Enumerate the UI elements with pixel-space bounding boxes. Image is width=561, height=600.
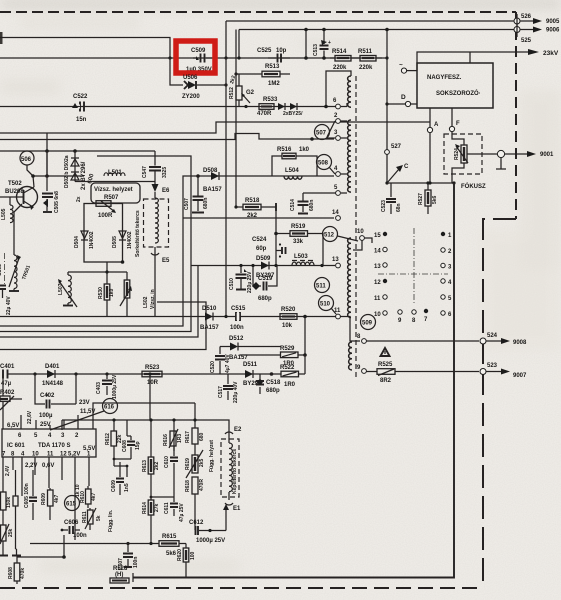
wire y183 [387,182,455,184]
transistor T502 BU208 [0,181,38,210]
svg-text:9005: 9005 [546,19,560,25]
svg-text:220µ 25V: 220µ 25V [247,271,253,293]
svg-text:100µ: 100µ [39,413,53,419]
svg-text:525: 525 [521,38,532,44]
svg-text:60p: 60p [256,246,267,252]
transformer core dashed [355,76,357,378]
diode D512 BA157 [220,336,281,361]
svg-text:10R: 10R [147,380,159,386]
capacitor C608 [122,436,141,459]
svg-text:2k2: 2k2 [247,213,258,219]
svg-text:5,2V: 5,2V [68,452,80,458]
pin 5 [336,191,341,196]
R522 inline row1 [270,355,305,388]
pin 527 [385,150,390,155]
svg-text:R615: R615 [162,534,177,540]
svg-text:E2: E2 [234,427,242,433]
connector grid bottom pins 9 8 7 [398,309,428,324]
resistor 150k [1,490,13,525]
svg-text:D510: D510 [202,306,217,312]
svg-text:14: 14 [332,210,339,216]
svg-text:22µ 40V: 22µ 40V [6,296,12,315]
pin 4 [336,172,341,177]
trimmer R619 2k5 [185,450,205,478]
svg-text:1R3: 1R3 [177,434,183,443]
capacitor C507 [183,174,334,218]
dashed border frame [0,11,516,13]
wire bus P1 [0,122,430,133]
svg-text:ZY200: ZY200 [182,94,200,100]
svg-text:11: 11 [374,296,381,302]
svg-text:4k7: 4k7 [54,494,60,503]
wire bus W5 [0,302,206,350]
svg-text:C605 100n: C605 100n [24,483,30,508]
capacitor C547 [142,151,168,192]
svg-text:D511: D511 [243,362,258,368]
resistor R618 [185,477,205,530]
capacitor C515 [230,306,246,331]
svg-text:10: 10 [357,229,364,235]
svg-text:D508: D508 [203,168,218,174]
svg-text:L503: L503 [294,254,308,260]
trimmer R512 G2 [229,74,255,107]
pin F [451,108,453,126]
resistor R609 4k7 [41,488,60,520]
svg-text:NAGYFESZ.: NAGYFESZ. [427,75,462,81]
svg-text:BA157: BA157 [229,355,248,361]
resistor R519 33k [290,224,308,245]
deflection coil box E6 E5 [144,188,171,316]
svg-text:1M2: 1M2 [268,81,280,87]
svg-text:15p: 15p [135,441,141,450]
wire bus P2 [0,134,334,140]
svg-text:524: 524 [487,333,498,339]
svg-text:D509: D509 [256,256,271,262]
wire long vertical x236 [235,30,237,208]
trimmer pot right of R530 [120,272,132,316]
capacitor C609 1n5 [111,462,130,495]
svg-text:Vízsz. helyzet: Vízsz. helyzet [94,187,133,193]
svg-text:C525: C525 [257,48,272,54]
svg-text:9006: 9006 [546,28,560,34]
svg-text:C611: C611 [164,502,170,514]
diode U506 ZY200 [170,58,226,100]
svg-text:SOKSZOROZÓ·: SOKSZOROZÓ· [436,89,481,97]
resistor R612 22k [105,431,123,459]
wire bus W2 [0,218,183,326]
svg-text:Függ. lin.: Függ. lin. [108,509,114,532]
svg-text:9001: 9001 [540,152,554,158]
capacitor C505 6n8 [42,176,60,213]
svg-text:510: 510 [320,302,331,308]
circle 508 [317,155,332,170]
pin 10 wire [364,238,372,243]
svg-text:15: 15 [374,233,381,239]
transformer winding bottom [349,342,352,370]
circle 507 [315,125,330,140]
svg-text:C522: C522 [73,94,88,100]
svg-text:9008: 9008 [513,340,527,346]
pin 3 [336,136,341,141]
pin ~ [401,68,406,73]
svg-text:9007: 9007 [513,373,527,379]
svg-text:C524: C524 [252,237,267,243]
svg-text:R613: R613 [142,460,148,472]
resistor R616 [163,429,183,448]
svg-text:12: 12 [374,280,381,286]
capacitor C403 [96,374,118,399]
capacitor C606 [61,520,87,539]
resistor R514 [330,49,356,71]
circle 510 [319,296,334,311]
pin 10 step [360,236,365,241]
svg-text:D: D [401,94,406,101]
svg-text:2x: 2x [76,196,82,202]
diode D510 BA157 [200,306,219,331]
svg-text:R611: R611 [82,511,88,523]
svg-text:12: 12 [60,452,67,458]
diode D511 BY298 [243,362,262,387]
svg-text:10: 10 [32,452,39,458]
svg-text:E6: E6 [162,188,170,194]
svg-text:150k: 150k [6,497,12,508]
capacitor C518 680p [256,374,281,394]
svg-text:11: 11 [47,452,54,458]
IC601 TDA1170S box [2,429,96,458]
resistor R513 [236,64,290,87]
capacitor C519 680p loop [251,264,277,302]
circle 511 [315,278,330,293]
svg-text:8R2: 8R2 [380,378,392,384]
svg-text:100n: 100n [230,325,244,331]
wire y188 to box [75,181,155,183]
warning triangle [381,348,390,356]
capacitor C523 [381,183,402,214]
wire row1 y374 [8,373,281,375]
svg-text:R619: R619 [185,458,191,470]
svg-text:C403: C403 [96,382,102,394]
transformer winding lower [348,238,351,317]
svg-text:523: 523 [487,363,498,369]
svg-text:D512: D512 [229,336,244,342]
svg-text:1k0: 1k0 [299,147,310,153]
wire verticals from corners [226,21,239,58]
coil L507 block [58,272,127,307]
circle 512 [323,227,338,242]
wire bus W3 [0,156,191,332]
capacitor C517 [218,374,239,403]
svg-text:1k0: 1k0 [109,288,115,297]
pin 8 [362,339,367,344]
svg-text:R512: R512 [229,87,235,99]
resistor R518 [234,198,276,219]
diode D503 [278,103,285,110]
svg-text:C401: C401 [0,364,15,370]
wire line y151 [0,150,155,152]
pin 14 [336,216,341,221]
wire main line y58 [0,57,387,59]
diode D401 1N4148 [42,364,64,387]
resistor R520 [280,307,297,329]
pin 9 [362,369,367,374]
resistor R527 [418,183,438,214]
svg-text:R520: R520 [281,307,296,313]
svg-text:23kV: 23kV [543,50,559,57]
capacitor C607 [118,542,139,570]
wire bus W4 [0,266,198,338]
svg-text:C606: C606 [64,520,79,526]
svg-text:5k6: 5k6 [432,195,438,204]
svg-text:2,4V: 2,4V [5,465,11,476]
diodes D502 column [64,151,96,190]
svg-text:R513: R513 [265,64,280,70]
svg-text:23V: 23V [79,400,90,406]
R529 on y355 line [240,315,307,367]
svg-text:R616: R616 [163,434,169,446]
resistor R615 5k6 [30,534,186,557]
svg-text:C518: C518 [266,380,281,386]
svg-text:~: ~ [399,62,403,69]
svg-text:FÓKUSZ: FÓKUSZ [461,182,486,190]
terminal 9001 [497,150,504,157]
svg-text:C: C [404,164,409,170]
wire line y37 [0,38,170,59]
svg-text:C505 6n8: C505 6n8 [54,191,60,213]
svg-text:G2: G2 [246,90,255,96]
svg-text:2k2: 2k2 [154,461,160,470]
svg-text:Vízsz. in: Vízsz. in [150,289,156,309]
svg-text:R618: R618 [185,480,191,492]
trimmer 25k [0,524,14,544]
svg-text:R402: R402 [0,390,15,396]
svg-text:L504: L504 [285,168,299,174]
svg-text:C513: C513 [313,44,319,56]
capacitor C605 [24,470,37,520]
arrow C [387,169,399,183]
svg-text:680: 680 [199,432,205,441]
svg-text:TDA 1170 S: TDA 1170 S [38,443,70,449]
svg-text:C503: C503 [0,264,3,276]
svg-text:615: 615 [66,502,77,508]
trimmer R611 [82,508,102,530]
svg-text:IC 601: IC 601 [7,443,25,449]
pin D [387,103,405,105]
resistor R620 100 [177,544,196,578]
wire D510 line y316 [0,317,360,342]
svg-text:L502: L502 [143,296,149,308]
svg-text:R612: R612 [105,433,111,445]
svg-text:33k: 33k [293,239,304,245]
svg-text:10k: 10k [282,323,293,329]
svg-text:C547: C547 [142,166,148,178]
svg-text:470k: 470k [20,568,26,579]
svg-text:D502 b D502a: D502 b D502a [64,155,70,188]
svg-text:2x BY296/: 2x BY296/ [81,161,87,190]
svg-text:25k: 25k [8,528,14,537]
svg-text:C612: C612 [189,520,204,526]
svg-text:100n: 100n [133,557,139,568]
resistor R402 [0,374,22,410]
wire 23kV [417,52,530,71]
resistor R511 [356,49,382,71]
svg-text:10: 10 [374,312,381,318]
svg-text:220k: 220k [359,65,373,71]
svg-text:T502: T502 [8,181,22,187]
circle 509 [361,315,376,330]
svg-text:512: 512 [324,233,335,239]
svg-text:C519: C519 [258,276,273,282]
svg-text:527: 527 [391,144,402,150]
svg-text:C507: C507 [184,198,190,210]
column end bars [0,555,21,557]
svg-text:R620: R620 [177,549,183,561]
svg-text:220k: 220k [333,65,347,71]
node A [168,56,171,59]
coil L505 [1,197,13,223]
wire E2 link [149,374,151,420]
svg-text:R514: R514 [332,49,347,55]
R528 (H) [110,566,129,583]
scan artifact left edge [0,32,3,44]
svg-text:C515: C515 [231,306,246,312]
svg-text:R617: R617 [185,431,191,443]
svg-text:R516: R516 [277,147,292,153]
bottom dashed border partial row [0,587,483,589]
svg-text:508: 508 [318,161,329,167]
svg-text:Függ. helyzet: Függ. helyzet [209,440,215,472]
capacitor C611 47u 25V [164,497,185,522]
solid border vertical [133,183,454,578]
circle 615 [65,496,80,511]
small box 1u [13,496,18,506]
svg-text:2xBY25/: 2xBY25/ [283,111,303,117]
capacitor C525 [257,48,290,63]
svg-text:3325: 3325 [162,167,168,178]
svg-text:511: 511 [316,284,326,290]
capacitor C609 1n5 adjusted stem [126,466,128,477]
resistor R617 [185,428,205,455]
pin 11 [336,314,341,319]
svg-text:13: 13 [374,264,381,270]
pin 6 [336,104,341,109]
svg-text:R524: R524 [454,148,460,160]
svg-text:506: 506 [21,157,32,163]
svg-text:100n: 100n [73,533,87,539]
svg-text:U506: U506 [183,75,198,81]
svg-text:C608: C608 [122,440,128,452]
resistor R613 2k2 [142,457,160,498]
svg-text:680p: 680p [266,388,280,394]
svg-text:4k7: 4k7 [91,492,97,501]
svg-text:5k6: 5k6 [166,551,177,557]
wire collector [33,133,84,187]
pin A [429,108,431,127]
svg-text:R518: R518 [245,198,260,204]
svg-text:C610: C610 [164,456,170,468]
transformer left winding [324,71,356,378]
svg-text:5k: 5k [96,515,102,521]
capacitor C513 bridge [313,28,331,60]
svg-text:13: 13 [332,257,339,263]
wire line y107 [0,106,336,108]
diode D509 BY297 [256,256,275,279]
svg-text:R529: R529 [280,346,295,352]
svg-text:E1: E1 [233,506,241,512]
svg-text:R522: R522 [280,365,295,371]
svg-text:507: 507 [316,131,327,137]
high-voltage multiplier box U [417,63,493,108]
svg-text:R533: R533 [263,97,278,103]
resistor R530 1k0 [98,262,115,316]
svg-text:1n5: 1n5 [124,483,130,492]
svg-text:BU208: BU208 [5,189,24,195]
capacitor C509 [186,48,212,73]
capacitor C514 680n [290,193,315,214]
circle 616 [103,399,118,414]
svg-text:1N4002: 1N4002 [89,231,95,249]
svg-text:C509: C509 [191,48,206,54]
svg-text:R511: R511 [358,49,373,55]
resistor R614 27k [142,497,174,543]
svg-text:2k5: 2k5 [199,458,205,467]
svg-text:680p: 680p [258,296,272,302]
svg-text:616: 616 [104,405,115,411]
resistor R525 8R2 [377,362,395,384]
svg-text:R525: R525 [378,362,393,368]
circle 506 [20,151,34,165]
wire block top line y420 [62,403,229,457]
svg-text:R610: R610 [80,491,86,503]
svg-text:526: 526 [521,14,532,20]
svg-text:68n: 68n [396,203,402,212]
wire to 9006 [239,29,514,31]
pin 13 [336,263,341,268]
svg-text:BA157: BA157 [203,187,222,193]
wire 523 line R525 [366,371,479,373]
svg-text:C510: C510 [229,278,235,290]
red highlight box [176,41,215,73]
diode D508 BA157 [183,168,334,218]
svg-text:470R: 470R [199,479,205,491]
connector crosshair dash-dot [378,228,448,305]
capacitor C503 left edge 22u [0,264,12,315]
wire IC pins verticals [3,457,89,540]
capacitor C522 [72,94,88,123]
diode D505 1N4002 [112,231,133,249]
svg-text:100R: 100R [98,213,113,219]
svg-text:0,6V: 0,6V [42,463,54,469]
svg-text:L507: L507 [58,283,64,295]
terminal 525 [514,27,520,33]
focus pot R524 [452,132,497,183]
dashed focus box [444,134,482,174]
svg-text:R530: R530 [98,287,104,299]
svg-text:(H): (H) [115,572,123,578]
svg-text:E5: E5 [162,258,170,264]
svg-text:470R: 470R [257,111,272,117]
svg-text:C514: C514 [290,199,296,211]
wire junction x306 [305,30,307,59]
svg-text:R519: R519 [291,224,306,230]
wire long vertical x226 [225,58,227,316]
svg-text:15n: 15n [76,117,87,123]
svg-text:C520: C520 [210,361,216,373]
wire to 9005 [226,20,514,22]
terminal 526 [514,18,520,24]
svg-text:680n: 680n [203,198,209,209]
svg-text:22,6V: 22,6V [27,410,33,424]
svg-text:680n: 680n [309,200,315,211]
